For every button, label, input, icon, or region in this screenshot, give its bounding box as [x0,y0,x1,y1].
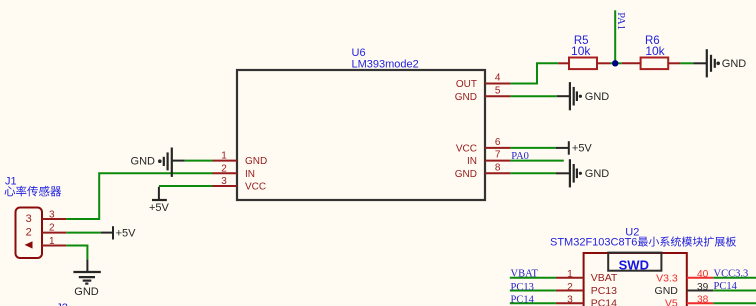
J1 pin 2 [42,223,67,234]
svg-text:VCC3.3: VCC3.3 [714,269,749,280]
svg-text:10k: 10k [571,44,591,58]
U6 pin 1 GND [213,151,268,168]
U6 pin 6 VCC [456,137,511,155]
resistor R6 body [641,58,669,70]
wire U6.4 to R5 [510,63,558,83]
mcu module U2 comment STM32F103C8T6最小系统模块扩展板 [550,236,736,248]
svg-text:38: 38 [697,295,709,306]
U2 pin 2 PC13 [556,282,617,297]
wire J1.1 to GND [66,246,87,260]
wire J1.2 to +5V [66,232,100,234]
svg-text:VCC: VCC [245,182,266,193]
U2 pin 38 [665,295,713,306]
svg-text:PC14: PC14 [591,298,617,306]
wire VCC3.3 [713,277,756,279]
svg-text:2: 2 [567,282,573,293]
wire U6.6 to +5V [510,147,555,149]
U2 pin 39 PC14 [655,282,714,297]
op-amp U6 body [237,70,485,200]
junction [612,60,618,66]
svg-text:4: 4 [495,73,501,84]
svg-text:GND: GND [585,168,610,180]
svg-text:GND: GND [131,156,156,168]
connector J1 body [16,208,43,259]
svg-text:8: 8 [495,162,501,173]
power port GND at U6 pin1 (mirrored) [131,148,185,177]
power port +5V below U6 pin3 [149,187,170,214]
SWD sub-box [608,253,661,271]
power port GND at U6.5 [557,82,610,110]
U6 pin 5 GND [455,85,511,103]
wire PC14 right [713,290,756,292]
svg-text:GND: GND [722,58,747,70]
svg-text:VBAT: VBAT [511,268,539,279]
svg-text:VCC: VCC [456,144,477,155]
svg-text:3: 3 [49,209,55,220]
power port +5V at U6.6 [556,141,593,155]
U2 pin 3 PC14 [556,295,617,306]
svg-text:7: 7 [495,150,501,161]
svg-text:V5: V5 [665,298,678,306]
svg-text:3: 3 [26,213,32,225]
svg-text:PA0: PA0 [511,151,529,162]
svg-text:LM393mode2: LM393mode2 [352,59,419,71]
wire R6 to GND [680,62,693,64]
U2 pin 1 VBAT [556,269,618,284]
svg-text:GND: GND [455,92,477,103]
svg-text:2: 2 [26,227,32,239]
svg-text:U6: U6 [352,47,366,59]
resistor R5 pins [558,62,610,64]
earth ground at J1.1 [73,259,100,297]
svg-text:1: 1 [49,236,55,247]
svg-text:1: 1 [567,269,573,280]
svg-text:J1: J1 [5,176,17,188]
svg-text:GND: GND [585,91,610,103]
U6 pin 2 IN [213,163,256,180]
svg-text:IN: IN [245,169,255,180]
wire PC14 left [510,302,556,304]
power port GND at U6.8 [556,159,609,187]
svg-text:J2: J2 [56,302,68,306]
svg-text:39: 39 [697,282,709,293]
J1 pin 3 [42,209,67,220]
svg-text:GND: GND [245,156,267,167]
U6 pin 3 VCC [213,176,267,193]
J1 pin 1 [42,236,67,247]
wire net PA1 [614,10,616,63]
svg-text:PC13: PC13 [591,285,617,297]
svg-text:+5V: +5V [149,202,170,214]
svg-text:6: 6 [495,137,501,148]
svg-text:IN: IN [467,156,477,167]
svg-text:GND: GND [74,286,99,298]
wire pin38 [713,302,756,304]
svg-text:SWD: SWD [619,258,649,273]
svg-text:GND: GND [455,169,477,180]
svg-text:VBAT: VBAT [591,272,618,284]
svg-text:3: 3 [221,176,227,187]
svg-text:OUT: OUT [456,79,477,90]
power port GND at R6 [693,49,746,77]
U6 pin 7 IN [467,150,510,168]
resistor R6 pins [622,62,681,64]
svg-text:PC14: PC14 [714,281,738,292]
svg-text:1: 1 [221,151,227,162]
U6 pin 8 GND [455,162,511,180]
wire U6.8 to GND [510,172,556,174]
U6 pin 4 OUT [456,73,511,91]
resistor R5 body [569,58,597,70]
mcu module U2 body [584,253,687,306]
connector J1 comment 心率传感器 [5,186,62,197]
wire PC13 [510,290,556,292]
svg-text:2: 2 [221,163,227,174]
svg-text:PC14: PC14 [511,295,535,306]
svg-text:V3.3: V3.3 [656,272,678,284]
svg-text:STM32F103C8T6: STM32F103C8T6 [550,237,637,249]
svg-text:+5V: +5V [116,227,137,239]
svg-text:2: 2 [49,223,55,234]
svg-text:+5V: +5V [572,143,593,155]
wire U6.7 net PA0 [510,160,563,162]
svg-text:PA1: PA1 [615,12,626,30]
svg-text:5: 5 [495,85,501,96]
wire U6.5 to GND [510,95,556,97]
svg-text:GND: GND [655,285,679,297]
wire +5V to U6.3 [159,185,213,187]
wire VBAT [510,277,556,279]
wire GND to U6.1 [185,160,213,162]
svg-text:40: 40 [697,269,709,280]
svg-text:10k: 10k [645,44,665,58]
wire J1.3 to U6.IN [66,173,212,219]
svg-text:PC13: PC13 [511,282,534,293]
svg-text:3: 3 [567,295,573,306]
U2 pin 40 VCC3.3 [656,269,713,284]
power port +5V at J1.2 [101,226,136,239]
wire R5 to R6 [610,62,622,64]
